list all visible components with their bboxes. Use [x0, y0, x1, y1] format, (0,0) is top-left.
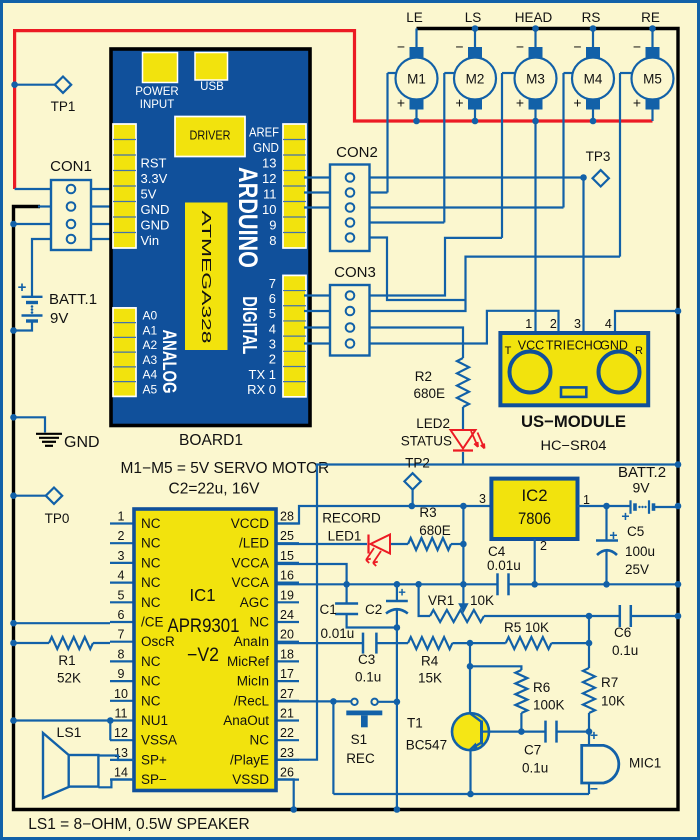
svg-text:R: R [635, 345, 643, 357]
svg-text:BATT.2: BATT.2 [618, 464, 666, 481]
svg-text:7: 7 [118, 628, 125, 642]
svg-text:+: + [573, 95, 581, 111]
svg-text:ANALOG: ANALOG [158, 330, 179, 394]
svg-text:9V: 9V [632, 480, 650, 496]
svg-text:18: 18 [280, 647, 294, 661]
svg-text:0.1u: 0.1u [355, 670, 381, 685]
svg-text:LE: LE [406, 10, 423, 25]
svg-text:A4: A4 [143, 368, 158, 382]
svg-text:0.1u: 0.1u [522, 761, 548, 776]
svg-text:APR9301: APR9301 [168, 616, 240, 637]
svg-text:C1: C1 [320, 602, 337, 617]
svg-text:M1−M5 = 5V SERVO MOTOR: M1−M5 = 5V SERVO MOTOR [121, 460, 330, 477]
svg-text:A1: A1 [143, 323, 158, 337]
svg-text:POWER: POWER [135, 86, 178, 98]
svg-text:BATT.1: BATT.1 [49, 291, 97, 308]
svg-text:10K: 10K [470, 593, 494, 608]
svg-text:3: 3 [118, 549, 125, 563]
svg-text:−V2: −V2 [187, 645, 219, 666]
svg-text:−: − [397, 39, 405, 55]
svg-text:680E: 680E [413, 386, 445, 401]
svg-text:7: 7 [269, 276, 276, 291]
svg-text:−: − [455, 39, 463, 55]
svg-text:AnaOut: AnaOut [223, 713, 269, 728]
svg-text:3.3V: 3.3V [141, 171, 168, 186]
svg-text:VCCA: VCCA [231, 575, 269, 590]
svg-text:4: 4 [269, 321, 276, 336]
svg-text:23: 23 [280, 746, 294, 760]
svg-text:5: 5 [118, 588, 125, 602]
svg-text:+: + [397, 95, 405, 111]
svg-text:LED1: LED1 [328, 529, 362, 544]
svg-text:4: 4 [605, 317, 612, 331]
svg-text:IC1: IC1 [190, 585, 216, 605]
svg-text:AREF: AREF [249, 124, 279, 139]
svg-text:GND: GND [141, 202, 170, 217]
svg-text:15K: 15K [418, 671, 442, 686]
svg-text:MIC1: MIC1 [629, 756, 661, 771]
svg-text:GND: GND [64, 434, 100, 451]
svg-text:C6: C6 [614, 625, 631, 640]
svg-text:NC: NC [250, 733, 270, 748]
svg-text:M1: M1 [407, 72, 426, 87]
svg-text:25: 25 [280, 529, 294, 543]
svg-text:Vin: Vin [141, 233, 160, 248]
svg-text:680E: 680E [419, 523, 451, 538]
svg-text:/LED: /LED [239, 536, 269, 551]
svg-text:BOARD1: BOARD1 [179, 432, 243, 449]
svg-text:NC: NC [141, 674, 161, 689]
svg-text:GND: GND [600, 339, 628, 353]
svg-text:TRI: TRI [546, 339, 566, 353]
svg-text:+: + [398, 585, 406, 600]
svg-text:VSSD: VSSD [232, 772, 269, 787]
svg-text:+: + [516, 95, 524, 111]
svg-text:16: 16 [280, 569, 294, 583]
svg-text:US−MODULE: US−MODULE [521, 412, 626, 431]
svg-text:6: 6 [269, 291, 276, 306]
svg-text:AGC: AGC [240, 595, 270, 610]
svg-text:14: 14 [114, 766, 128, 780]
svg-text:9V: 9V [50, 310, 68, 327]
svg-text:TX 1: TX 1 [249, 367, 276, 382]
svg-text:17: 17 [280, 667, 294, 681]
svg-text:2: 2 [118, 529, 125, 543]
svg-text:MicRef: MicRef [227, 654, 269, 669]
svg-text:C2: C2 [365, 602, 382, 617]
svg-text:TP1: TP1 [51, 99, 76, 114]
svg-text:26: 26 [280, 766, 294, 780]
svg-text:INPUT: INPUT [140, 99, 175, 111]
svg-text:LS: LS [465, 10, 482, 25]
svg-text:RS: RS [582, 10, 601, 25]
svg-text:GND: GND [141, 217, 170, 232]
svg-text:R3: R3 [419, 505, 436, 520]
svg-text:RST: RST [141, 155, 167, 170]
svg-text:ARDUINO: ARDUINO [233, 167, 263, 268]
svg-text:HEAD: HEAD [515, 10, 553, 25]
svg-text:0.1u: 0.1u [612, 643, 638, 658]
svg-text:T: T [505, 345, 512, 357]
svg-text:M4: M4 [584, 72, 603, 87]
svg-text:11: 11 [263, 186, 277, 201]
svg-text:T1: T1 [407, 716, 423, 731]
svg-text:27: 27 [280, 687, 294, 701]
svg-text:3: 3 [269, 337, 276, 352]
svg-text:ECHO: ECHO [566, 339, 602, 353]
svg-text:1: 1 [118, 510, 125, 524]
svg-text:R1: R1 [58, 653, 75, 668]
svg-text:STATUS: STATUS [401, 434, 452, 449]
svg-text:3: 3 [574, 317, 581, 331]
svg-text:RE: RE [641, 10, 660, 25]
svg-text:11: 11 [115, 707, 128, 721]
svg-text:A0: A0 [143, 309, 158, 323]
svg-text:13: 13 [114, 746, 128, 760]
svg-text:NC: NC [141, 654, 161, 669]
svg-text:C3: C3 [358, 652, 375, 667]
svg-text:NC: NC [250, 615, 270, 630]
svg-text:BC547: BC547 [406, 738, 447, 753]
svg-text:10: 10 [114, 687, 128, 701]
svg-text:RECORD: RECORD [322, 511, 381, 526]
svg-text:+: + [609, 527, 617, 543]
svg-text:R5 10K: R5 10K [504, 620, 549, 635]
svg-text:TP2: TP2 [405, 456, 430, 471]
svg-text:19: 19 [280, 588, 294, 602]
svg-text:S1: S1 [351, 732, 368, 747]
svg-text:+: + [455, 95, 463, 111]
svg-text:VCC: VCC [518, 339, 544, 353]
svg-text:A3: A3 [143, 353, 158, 367]
svg-text:+: + [621, 508, 629, 524]
svg-text:TP3: TP3 [586, 149, 611, 164]
svg-text:12: 12 [114, 726, 128, 740]
svg-text:NC: NC [141, 693, 161, 708]
svg-text:0.01u: 0.01u [487, 558, 521, 573]
svg-text:VCCA: VCCA [231, 555, 269, 570]
svg-text:R2: R2 [415, 369, 432, 384]
svg-text:10K: 10K [601, 694, 625, 709]
svg-text:MicIn: MicIn [237, 674, 269, 689]
svg-text:24: 24 [280, 608, 294, 622]
svg-text:2: 2 [269, 352, 276, 367]
svg-text:A5: A5 [143, 382, 158, 396]
svg-text:5: 5 [269, 306, 276, 321]
svg-text:NC: NC [141, 575, 161, 590]
svg-text:VSSA: VSSA [141, 733, 177, 748]
svg-text:+: + [18, 279, 27, 296]
svg-text:NU1: NU1 [141, 713, 168, 728]
svg-text:NC: NC [141, 595, 161, 610]
svg-text:10: 10 [262, 202, 276, 217]
svg-text:R4: R4 [421, 654, 439, 669]
svg-text:GND: GND [253, 140, 279, 155]
svg-text:6: 6 [118, 608, 125, 622]
svg-text:22: 22 [280, 726, 294, 740]
svg-text:8: 8 [269, 233, 276, 248]
svg-text:/PlayE: /PlayE [230, 752, 269, 767]
svg-text:C7: C7 [524, 743, 541, 758]
svg-text:RX 0: RX 0 [247, 382, 276, 397]
svg-text:M5: M5 [643, 72, 662, 87]
svg-text:R7: R7 [601, 675, 618, 690]
svg-text:100u: 100u [625, 544, 655, 559]
svg-text:HC−SR04: HC−SR04 [541, 438, 608, 453]
svg-text:25V: 25V [625, 562, 649, 577]
svg-text:8: 8 [118, 647, 125, 661]
svg-text:13: 13 [262, 155, 276, 170]
svg-text:SP−: SP− [141, 772, 167, 787]
svg-text:ATMEGA328: ATMEGA328 [199, 211, 214, 344]
svg-text:2: 2 [550, 317, 557, 331]
svg-text:−: − [573, 39, 581, 55]
svg-text:−: − [516, 39, 524, 55]
svg-text:DIGITAL: DIGITAL [238, 296, 260, 354]
svg-text:12: 12 [262, 171, 276, 186]
svg-text:20: 20 [280, 628, 294, 642]
svg-text:REC: REC [346, 751, 375, 766]
svg-text:3: 3 [479, 492, 486, 506]
svg-text:C4: C4 [488, 544, 506, 559]
svg-text:+: + [590, 727, 598, 743]
svg-text:−: − [633, 39, 641, 55]
svg-text:R6: R6 [533, 680, 550, 695]
svg-text:4: 4 [118, 569, 125, 583]
svg-text:NC: NC [141, 516, 161, 531]
svg-text:VR1: VR1 [428, 593, 454, 608]
svg-text:9: 9 [269, 217, 276, 232]
svg-text:DRIVER: DRIVER [190, 129, 231, 143]
svg-text:28: 28 [280, 510, 294, 524]
svg-text:CON1: CON1 [50, 158, 92, 175]
svg-text:−: − [590, 781, 598, 797]
svg-text:100K: 100K [533, 698, 565, 713]
svg-text:/CE: /CE [141, 615, 164, 630]
svg-text:C5: C5 [627, 524, 644, 539]
svg-text:M2: M2 [466, 72, 485, 87]
svg-text:LED2: LED2 [416, 416, 450, 431]
svg-text:CON3: CON3 [334, 264, 376, 281]
svg-text:TP0: TP0 [45, 511, 70, 526]
svg-text:NC: NC [141, 555, 161, 570]
svg-text:USB: USB [200, 81, 224, 93]
svg-text:LS1: LS1 [57, 724, 82, 740]
svg-text:1: 1 [525, 317, 532, 331]
svg-text:7806: 7806 [518, 509, 551, 528]
svg-text:/RecL: /RecL [234, 693, 270, 708]
svg-text:NC: NC [141, 536, 161, 551]
svg-text:2: 2 [540, 539, 547, 553]
svg-text:21: 21 [280, 707, 294, 721]
svg-text:+: + [633, 95, 641, 111]
svg-text:A2: A2 [143, 338, 158, 352]
svg-text:15: 15 [280, 549, 294, 563]
svg-text:LS1 = 8−OHM, 0.5W SPEAKER: LS1 = 8−OHM, 0.5W SPEAKER [28, 816, 249, 833]
svg-text:IC2: IC2 [522, 486, 548, 505]
svg-text:M3: M3 [526, 72, 545, 87]
svg-text:0.01u: 0.01u [321, 626, 355, 641]
svg-text:SP+: SP+ [141, 752, 167, 767]
svg-text:9: 9 [118, 667, 125, 681]
svg-text:52K: 52K [57, 671, 81, 686]
svg-text:CON2: CON2 [336, 144, 378, 161]
svg-text:VCCD: VCCD [231, 516, 270, 531]
svg-text:5V: 5V [141, 186, 157, 201]
svg-text:C2=22u, 16V: C2=22u, 16V [169, 481, 261, 498]
